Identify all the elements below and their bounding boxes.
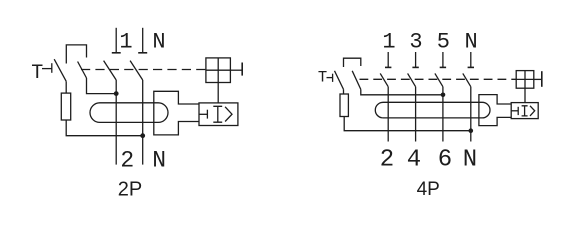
resistor R (2P test resistor) [61,93,70,120]
pole 1 switch blade (4P) [380,73,388,86]
svg-text:6: 6 [438,146,452,173]
mechanical linkage dashed (4P) [360,78,517,80]
toroid current transformer (2P) [90,103,168,123]
wire: test button to resistor (2P) [65,81,67,93]
wire: bridge from test button over to aux contact (2P) [66,45,86,64]
trip relay input bar (2P) [199,113,207,115]
terminal 1 contact bar (4P) [385,66,391,68]
terminal 1 lead (4P) [387,52,389,67]
pole N switch blade (4P) [463,73,471,86]
svg-text:2: 2 [120,148,134,174]
svg-text:1: 1 [119,30,132,55]
trip relay symbol chevron (2P) [225,107,232,122]
test button actuator wire (4P) [327,77,333,79]
manual actuator stem (2P) [230,69,242,71]
manual actuator stem (4P) [534,78,542,80]
wire: resistor to node on pole N (2P) [66,120,143,136]
svg-text:T: T [31,62,43,85]
trip mechanism square (2P) [206,58,231,83]
svg-text:1: 1 [382,29,395,54]
test button actuator wire (2P) [42,68,52,70]
wire: bridge from test button to aux contact (4P) [344,58,361,67]
wire: trip mechanism to relay (4P) [524,88,526,102]
terminal N lead (4P) [470,52,472,67]
svg-text:4: 4 [407,146,421,173]
pole 1 conductor through toroid (2P) [115,80,117,165]
wire: aux contact to pole 5 node (4P) [361,89,443,94]
svg-text:N: N [152,30,165,55]
trip mechanism cross vertical (4P) [524,71,526,89]
relay coupling block (4P) [479,95,511,126]
svg-text:N: N [152,148,166,174]
junction dot on pole 5 (4P) [441,93,446,98]
terminal N contact bar (4P) [468,66,474,68]
pole N conductor through toroid (2P) [142,80,144,165]
test button actuator tick (4P) [332,74,334,82]
pole 1 switch blade (2P) [104,61,117,80]
trip relay symbol I (4P) [522,106,528,116]
svg-text:4P: 4P [417,179,440,200]
terminal 3 lead (4P) [415,52,417,67]
svg-text:5: 5 [437,29,450,54]
pole 3 switch blade (4P) [408,73,416,86]
terminal 1 lead (2P) [115,28,117,53]
mechanical linkage dashed (2P) [81,69,206,71]
svg-text:2P: 2P [118,179,142,201]
trip mechanism cross vertical (2P) [217,58,219,83]
trip mechanism square (4P) [516,71,534,89]
auxiliary contact blade (4P) [352,71,361,90]
wire: resistor to node on pole N (4P) [344,117,471,131]
svg-text:3: 3 [409,29,422,54]
trip mechanism cross horizontal (2P) [206,69,231,71]
terminal 1 contact bar (2P) [112,52,121,54]
trip relay input bar (4P) [511,110,518,112]
terminal 5 contact bar (4P) [440,66,446,68]
terminal 3 contact bar (4P) [412,66,418,68]
pole 5 switch blade (4P) [435,73,443,86]
trip relay input tick (4P) [517,107,519,115]
svg-text:N: N [463,146,477,173]
test button blade (4P) [335,71,344,90]
wire: aux contact to pole 1 node (2P) [87,78,117,94]
svg-text:2: 2 [380,146,394,173]
wire: test button to resistor (4P) [343,89,345,94]
manual actuator bar (4P) [541,71,543,87]
svg-text:N: N [464,29,477,54]
junction dot on pole N load side (4P) [469,128,474,133]
test button actuator tick (2P) [51,63,53,73]
resistor R (4P test resistor) [340,94,348,117]
terminal 5 lead (4P) [442,52,444,67]
svg-text:T: T [318,68,327,86]
trip mechanism cross horizontal (4P) [516,78,534,80]
pole 3 conductor (4P) [415,87,417,142]
test button blade (2P) [54,59,66,81]
relay coupling block (2P) [154,91,199,135]
junction dot on pole 1 (2P) [114,91,119,96]
trip relay symbol I (2P) [213,106,222,122]
manual actuator bar (2P) [241,63,243,76]
wire: trip mechanism to relay (2P) [217,83,219,103]
auxiliary contact blade (2P) [78,62,87,79]
terminal N lead (2P) [142,28,144,53]
pole 5 conductor (4P) [442,87,444,142]
pole N switch blade (2P) [130,61,143,80]
terminal N contact bar (2P) [138,52,147,54]
trip relay box I> (2P) [199,103,238,126]
junction dot on pole N load side (2P) [140,133,145,138]
trip relay box I> (4P) [511,103,538,119]
pole N conductor (4P) [470,87,472,142]
trip relay symbol chevron (4P) [530,106,535,116]
trip relay input tick (2P) [206,110,208,119]
pole 1 conductor (4P) [387,87,389,142]
toroid current transformer (4P) [375,102,490,118]
